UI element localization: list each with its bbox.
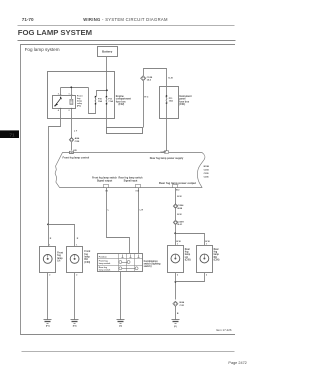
svg-text:fog: fog [57,255,61,257]
svg-text:R: R [50,238,52,240]
svg-text:B: B [177,313,179,315]
ribbon bottom stub I/12 [173,184,178,187]
wire F11 out down [106,105,108,128]
svg-text:3: 3 [58,94,59,96]
connector A/64 on coil wire [69,138,74,143]
header rule [18,25,235,27]
svg-text:71: 71 [9,132,15,137]
fuse F11 [105,97,108,104]
svg-text:L: L [108,209,110,211]
switch contacts row1 [119,261,122,264]
svg-text:Combination: Combination [144,260,159,263]
wire front lamp RH to ground [74,273,76,320]
wire front lamp LH feed [48,225,50,247]
svg-text:C206: C206 [204,176,210,178]
instrument panel fuse box [160,87,179,119]
svg-text:IC-B: IC-B [168,77,173,79]
wire front fog switch signal [107,188,130,254]
diagram frame (left, top, bottom edges) [21,45,236,335]
ribbon stub C202 [69,151,73,153]
svg-text:2: 2 [76,275,77,277]
wire coil pin1 to bus [71,88,73,100]
wire rear fog power output [175,188,177,205]
junction connector rect [107,128,143,134]
svg-text:14-5: 14-5 [147,79,152,82]
wire rear lamp RH joins [176,273,205,282]
svg-text:I/9: I/9 [106,190,109,192]
svg-text:(F22): (F22) [119,103,125,106]
engine compartment fuse box [48,72,115,119]
wire bridge diamond to instrument box [144,69,167,87]
switch contacts row2 [119,267,122,270]
svg-text:lamp: lamp [57,258,63,260]
ground front lamp LH [44,320,52,324]
wire branch to rear lamp RH [176,234,205,246]
svg-text:71-70: 71-70 [22,17,34,22]
front fog lamp LH bulb [43,255,52,264]
svg-text:(C06): (C06) [214,260,220,262]
svg-text:lamp switch: lamp switch [99,269,111,272]
svg-text:(/1): (/1) [174,326,177,328]
svg-text:Page 2472: Page 2472 [228,361,246,365]
ground front lamp RH [71,320,79,324]
svg-text:C/204: C/204 [161,150,167,153]
svg-text:L R: L R [140,209,144,211]
svg-text:Front fog lamp control: Front fog lamp control [63,156,90,159]
svg-text:C/21: C/21 [180,305,185,307]
svg-text:(C05): (C05) [185,260,191,262]
junction dot rear lamps ground [175,281,177,283]
svg-text:C202: C202 [69,152,73,154]
fuse F11 (instrument panel) [165,96,168,103]
svg-text:I/12: I/12 [176,189,180,191]
junction dot front lamps feed [47,224,49,226]
relay coil [70,99,73,104]
wire relay pin4 down jog to lamp feed [49,109,61,225]
wire rear lamp LH down [175,273,177,300]
svg-text:RH: RH [214,257,218,259]
svg-text:C/58: C/58 [75,141,80,143]
svg-text:2: 2 [206,275,207,277]
diamond connector B/64 [173,301,178,306]
svg-text:fog: fog [214,252,218,254]
rear fog lamp LH bulb [171,254,180,263]
harness ribbon [55,153,205,188]
wire battery feed down [106,57,108,97]
svg-text:(C04): (C04) [84,261,90,264]
svg-text:B/64: B/64 [180,301,185,304]
front fog lamp RH box [67,247,83,273]
svg-text:lamp: lamp [214,254,220,256]
svg-text:B W: B W [177,196,182,198]
wire relay pin3 to bus [60,88,62,96]
svg-text:(F1): (F1) [46,326,50,328]
switch table [98,254,143,272]
relay contact terminals [60,97,61,98]
battery B1 [98,47,118,57]
fuse F16 [94,97,97,104]
wire bus horizontal [61,87,89,89]
svg-text:7.5A: 7.5A [108,100,113,103]
svg-text:lamp: lamp [185,254,191,256]
svg-text:LH: LH [57,261,60,263]
wire fuse out to ribbon [166,104,168,151]
svg-text:C205: C205 [204,173,210,175]
connector C/204 on power wire [173,204,178,209]
svg-text:switch): switch) [144,265,152,268]
wire diamond down to junction rect [143,81,145,128]
connector C/20H on power wire [173,220,178,225]
svg-text:C204: C204 [204,168,210,171]
svg-text:R: R [77,238,79,240]
svg-text:1: 1 [76,244,77,246]
svg-text:Rear fog lamp power output: Rear fog lamp power output [159,181,196,185]
relay contact blade [55,98,61,106]
svg-text:1: 1 [206,243,207,245]
wire rear fog switch signal [138,188,140,254]
svg-text:fog: fog [84,254,88,256]
ground rear lamps [172,320,180,324]
junction dot battery branch [106,89,108,91]
svg-text:(F2): (F2) [73,326,77,328]
svg-text:LH: LH [185,257,188,259]
svg-text:Item 17-226: Item 17-226 [216,328,232,332]
svg-text:L/25: L/25 [73,150,77,152]
svg-text:C/204: C/204 [178,204,185,207]
wire battery branch to F16 [97,91,107,97]
svg-text:1: 1 [177,243,178,245]
svg-text:(C01): (C01) [179,103,185,106]
svg-text:FOG LAMP SYSTEM: FOG LAMP SYSTEM [18,28,92,37]
svg-text:Rear: Rear [185,249,190,251]
wire to rear ground [175,307,177,320]
svg-text:Fog lamp system: Fog lamp system [25,47,60,52]
svg-text:4: 4 [58,109,60,112]
diamond connector C12B [141,76,146,81]
relay pin pads [60,93,61,96]
front fog lamp RH bulb [70,255,79,264]
svg-text:WIRING - SYSTEM CIRCUIT DIAGRA: WIRING - SYSTEM CIRCUIT DIAGRAM [83,17,168,22]
svg-text:1: 1 [49,244,50,246]
svg-text:Front: Front [57,251,63,254]
svg-text:Battery: Battery [102,50,113,54]
svg-text:Signal input: Signal input [124,180,138,183]
svg-text:Rear: Rear [214,249,219,251]
svg-text:R G: R G [144,97,148,99]
svg-text:B W: B W [177,214,182,216]
junction dot rear lamps feed [174,232,176,234]
svg-text:fog: fog [185,252,189,254]
svg-text:2: 2 [49,275,50,277]
ribbon stub C204 [164,151,168,153]
front fog lamp LH box [40,247,56,273]
wire front lamp LH to ground [47,273,49,320]
svg-text:I/10: I/10 [136,190,140,192]
svg-text:15A: 15A [169,100,173,103]
chapter tab 71 [0,130,19,138]
svg-text:(F1): (F1) [77,106,81,108]
title rule [18,40,236,42]
svg-text:Front: Front [84,250,90,253]
fog lamp relay box [53,96,76,109]
svg-text:lamp switch: lamp switch [99,262,111,265]
svg-text:lamp: lamp [84,257,90,259]
svg-text:2: 2 [69,110,70,112]
svg-text:switch (lighting: switch (lighting [144,263,161,266]
svg-text:(I1): (I1) [119,326,122,328]
ribbon bottom stub I/10 [136,184,141,187]
svg-text:B-01: B-01 [178,224,184,226]
svg-text:15A: 15A [98,100,102,103]
svg-text:Front fog: Front fog [99,260,109,263]
rear fog lamp RH bulb [200,254,209,263]
svg-text:C/20H: C/20H [178,221,185,223]
svg-text:L Y: L Y [74,131,78,133]
ribbon bottom stub I/9 [104,184,109,187]
svg-text:A/64: A/64 [75,137,80,140]
svg-text:Rear fog lamp power supply: Rear fog lamp power supply [150,157,184,160]
svg-text:Signal output: Signal output [97,180,112,183]
svg-text:B19B: B19B [204,166,210,168]
ground switch [117,320,125,324]
footer rule [22,351,235,353]
wire switch common to ground [120,272,122,320]
svg-text:B/08: B/08 [178,208,183,210]
wire coil pin2 down [71,109,73,138]
svg-text:RH: RH [84,259,88,261]
svg-text:1: 1 [69,94,70,96]
wire bus drop [89,88,96,114]
wire into fuse F11 ip [166,87,168,97]
wire branch to front lamp RH [49,225,75,247]
svg-text:2: 2 [177,275,178,277]
rear fog lamp RH box [197,246,213,273]
junction dot bus/coil [70,86,72,88]
svg-text:Position: Position [99,256,108,259]
switch table header pin marks [122,255,124,258]
rear fog lamp LH box [168,246,184,273]
